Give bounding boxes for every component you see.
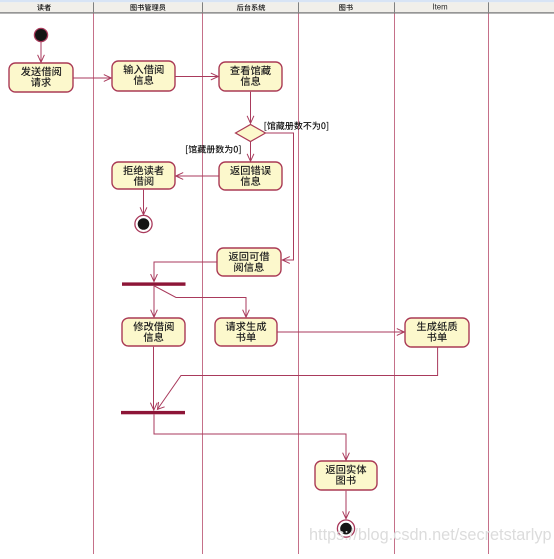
header divider 3 bbox=[298, 2, 299, 12]
activity 拒绝读者借阅 bbox=[112, 162, 175, 189]
swimlane divider line 2 bbox=[202, 14, 204, 555]
wire fork→请求生成书单 bbox=[155, 286, 250, 317]
final node 2 bbox=[337, 520, 354, 537]
activity 返回可借阅信息 bbox=[217, 248, 281, 276]
guard label [馆藏册数为0] bbox=[186, 145, 241, 154]
join bar bbox=[121, 411, 185, 414]
svg-text:https://blog.csdn.net/secretst: https://blog.csdn.net/secretstarlyp bbox=[309, 526, 552, 544]
wire 返回实体图书→final2 bbox=[343, 491, 350, 519]
swimlane divider line 5 bbox=[488, 14, 490, 555]
wire 返回错误信息→拒绝读者借阅 bbox=[176, 173, 219, 180]
decision diamond bbox=[236, 125, 266, 142]
wire start→发送借阅请求 bbox=[38, 42, 45, 63]
header divider 4 bbox=[394, 2, 395, 12]
wire 发送借阅请求→输入借阅信息 bbox=[74, 75, 112, 82]
final node 1 bbox=[135, 215, 152, 232]
header divider 1 bbox=[93, 2, 94, 12]
wire 返回可借阅信息→fork bbox=[151, 262, 217, 282]
lane title 图书 bbox=[339, 4, 353, 11]
wire decision→返回可借阅信息 (馆藏册数不为0) bbox=[266, 133, 294, 263]
swimlane divider line 3 bbox=[298, 14, 300, 555]
wire 输入借阅信息→查看馆藏信息 bbox=[176, 73, 219, 80]
lane title 后台系统 bbox=[237, 4, 265, 11]
activity 查看馆藏信息 bbox=[219, 62, 282, 91]
swimlane divider line 4 bbox=[394, 14, 396, 555]
swimlane divider line 1 bbox=[93, 14, 95, 555]
wire 查看馆藏信息→decision bbox=[247, 92, 254, 124]
header divider 2 bbox=[202, 2, 203, 12]
wire 修改借阅信息→join bbox=[150, 347, 157, 411]
wire join→返回实体图书 bbox=[154, 414, 349, 460]
header divider 5 bbox=[488, 2, 489, 12]
wire fork→修改借阅信息 bbox=[151, 286, 158, 317]
wire 拒绝读者借阅→final1 bbox=[140, 190, 147, 215]
swimlane header bar bbox=[0, 0, 554, 14]
activity 生成纸质书单 bbox=[405, 318, 469, 347]
lane title 读者 bbox=[37, 4, 51, 11]
activity 返回错误信息 bbox=[219, 162, 282, 190]
lane title 图书管理员 bbox=[130, 4, 165, 11]
activity 修改借阅信息 bbox=[122, 318, 185, 346]
wire 生成纸质书单→join bbox=[157, 348, 437, 410]
activity 发送借阅请求 bbox=[9, 63, 73, 92]
fork bar bbox=[122, 282, 186, 285]
guard label [馆藏册数不为0] bbox=[265, 121, 329, 130]
wire 请求生成书单→生成纸质书单 bbox=[278, 329, 405, 336]
activity 请求生成书单 bbox=[215, 318, 277, 346]
svg-text:Item: Item bbox=[432, 3, 447, 12]
activity 输入借阅信息 bbox=[112, 61, 175, 91]
activity 返回实体图书 bbox=[315, 461, 377, 490]
start node bbox=[34, 28, 47, 41]
wire decision→返回错误信息 (馆藏册数为0) bbox=[247, 142, 254, 162]
